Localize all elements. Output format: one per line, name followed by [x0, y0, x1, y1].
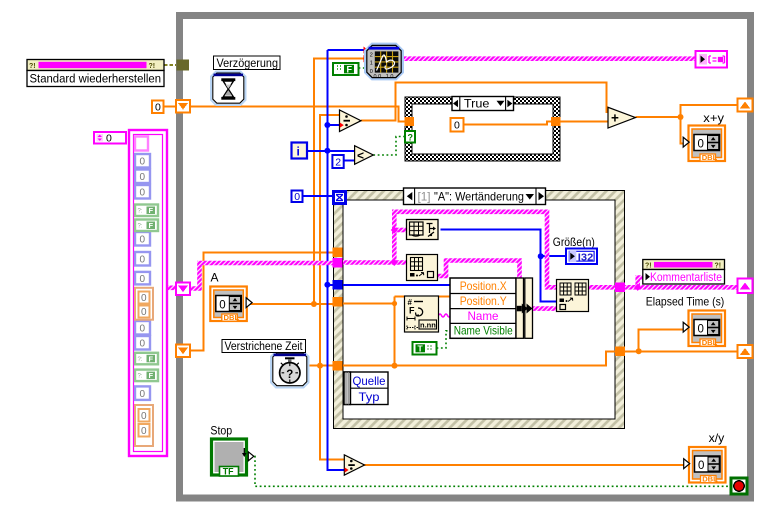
svg-text:Name Visible: Name Visible [454, 323, 513, 337]
svg-text:F: F [149, 371, 154, 380]
svg-text:Quelle: Quelle [353, 374, 386, 388]
svg-text:0: 0 [140, 172, 146, 183]
svg-text:Verstrichene Zeit: Verstrichene Zeit [225, 339, 304, 353]
svg-text:0: 0 [141, 307, 147, 318]
svg-text:0: 0 [294, 191, 300, 203]
svg-text:T: T [418, 344, 424, 354]
svg-text:0.0 1.0: 0.0 1.0 [374, 74, 394, 80]
svg-text:i: i [297, 145, 300, 159]
svg-text:[1]: [1] [418, 190, 431, 204]
svg-text:0: 0 [140, 339, 146, 350]
svg-text:?!: ?! [29, 63, 36, 70]
svg-text:0: 0 [155, 102, 161, 114]
svg-text:F: F [409, 306, 415, 316]
svg-text:x/y: x/y [709, 431, 725, 445]
svg-text:+: + [611, 111, 619, 126]
svg-text:2: 2 [370, 53, 373, 59]
svg-text:0: 0 [140, 157, 146, 168]
svg-text:0: 0 [698, 323, 704, 335]
svg-text:True: True [464, 97, 490, 111]
svg-text:0: 0 [140, 274, 146, 285]
svg-text:A: A [211, 271, 219, 285]
svg-text:DBL: DBL [702, 153, 718, 162]
svg-text:Stop: Stop [210, 424, 232, 438]
svg-text:TF: TF [223, 467, 234, 477]
svg-text:?:: ?: [138, 209, 143, 215]
svg-text:I32: I32 [578, 251, 594, 263]
svg-text:<: < [357, 149, 364, 163]
svg-text:0: 0 [219, 299, 225, 311]
svg-text:0: 0 [106, 132, 112, 144]
svg-text:?!: ?! [715, 263, 722, 270]
svg-text:Name: Name [468, 309, 499, 323]
svg-text:F: F [149, 206, 154, 215]
svg-text:0: 0 [698, 460, 704, 472]
svg-text:n.nn: n.nn [420, 321, 436, 330]
svg-text:?: ? [408, 133, 414, 143]
svg-text:?:: ?: [138, 224, 143, 230]
svg-text:Position.Y: Position.Y [460, 294, 507, 308]
svg-text:?:: ?: [138, 357, 143, 363]
svg-text:0: 0 [140, 255, 146, 266]
svg-text:0: 0 [141, 293, 147, 304]
svg-text:0: 0 [140, 188, 146, 199]
svg-text:0: 0 [370, 69, 373, 75]
svg-text:Position.X: Position.X [460, 279, 507, 293]
svg-text:Verzögerung: Verzögerung [217, 56, 279, 70]
svg-text:?!: ?! [645, 263, 652, 270]
svg-text:0: 0 [454, 120, 460, 132]
svg-text:?:: ?: [138, 374, 143, 380]
svg-text:x+y: x+y [703, 111, 724, 125]
svg-text:F: F [149, 354, 154, 363]
svg-text:Kommentarliste: Kommentarliste [650, 270, 722, 284]
svg-text:DBL: DBL [224, 313, 240, 322]
svg-text:?: ? [286, 369, 293, 381]
svg-text:0: 0 [141, 411, 147, 422]
svg-text:2: 2 [335, 156, 341, 168]
svg-text:Standard wiederherstellen: Standard wiederherstellen [30, 72, 162, 86]
svg-text:"A": Wertänderung: "A": Wertänderung [434, 190, 524, 204]
svg-text:DBL: DBL [702, 338, 718, 347]
svg-text:0: 0 [140, 389, 146, 400]
svg-text:F: F [149, 221, 154, 230]
svg-text:0: 0 [141, 426, 147, 437]
svg-text:Typ: Typ [359, 390, 380, 404]
svg-text:1: 1 [370, 61, 373, 67]
svg-text:?!: ?! [149, 63, 156, 70]
svg-text:Größe(n): Größe(n) [553, 235, 595, 249]
svg-text:DBL: DBL [702, 475, 718, 484]
svg-text:0: 0 [140, 324, 146, 335]
svg-text:Elapsed Time (s): Elapsed Time (s) [646, 295, 725, 309]
svg-text:F: F [347, 64, 353, 74]
svg-text:0: 0 [698, 138, 704, 150]
svg-text:0: 0 [140, 235, 146, 246]
